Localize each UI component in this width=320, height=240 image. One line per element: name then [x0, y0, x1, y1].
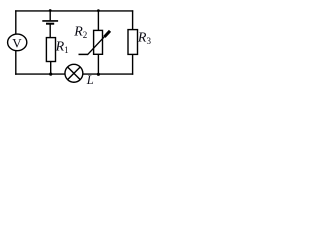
wire left edge upper — [15, 10, 17, 34]
battery stub upper — [49, 11, 51, 20]
lamp L — [65, 64, 83, 82]
rheostat R2 arrow — [79, 31, 111, 55]
battery short plate — [46, 23, 54, 25]
wire R1 to bottom — [50, 62, 52, 75]
battery long plate — [42, 20, 58, 22]
wire right edge upper — [132, 10, 134, 29]
wire left edge lower — [15, 51, 17, 75]
battery stub lower / wire to R1 — [49, 25, 51, 38]
resistor R1 — [46, 38, 55, 62]
node R1 bottom junction — [49, 73, 52, 76]
wire top — [15, 10, 133, 12]
rheostat R2 stub lower — [97, 54, 99, 74]
node R2 bottom junction — [97, 73, 100, 76]
wire bottom right — [83, 73, 133, 75]
svg-text:L: L — [86, 73, 94, 87]
voltmeter V — [8, 34, 27, 51]
svg-text:V: V — [12, 35, 22, 50]
wire right edge lower — [132, 54, 134, 74]
rheostat R2 box — [94, 30, 103, 54]
node R2 top junction — [97, 9, 100, 12]
rheostat R2 stub upper — [97, 11, 99, 31]
wire bottom left — [15, 73, 65, 75]
node battery top junction — [49, 9, 52, 12]
resistor R3 — [128, 30, 138, 55]
